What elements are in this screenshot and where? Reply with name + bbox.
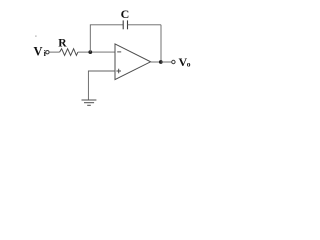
op-amp non-inverting pin label (plus) — [116, 69, 121, 74]
node A (junction dot) — [88, 50, 92, 54]
terminal Vi — [46, 51, 49, 54]
wire feedback left vertical — [90, 25, 123, 52]
ground — [82, 100, 97, 105]
wire feedback right vertical down to node B — [160, 25, 162, 62]
label Vi — [34, 44, 47, 58]
svg-text:C: C — [121, 7, 130, 21]
wire feedback right horizontal — [128, 24, 162, 26]
resistor R — [60, 49, 78, 56]
svg-text:R: R — [58, 38, 67, 50]
wire resistor to node A — [78, 51, 90, 53]
wire Vi to resistor — [49, 51, 59, 53]
wire op-amp output to node B — [151, 61, 161, 63]
svg-text:o: o — [187, 60, 191, 69]
wire node B to output terminal — [161, 61, 172, 63]
node B (junction dot) — [159, 60, 163, 64]
svg-text:V: V — [34, 44, 43, 58]
terminal Vo — [172, 60, 175, 63]
op-amp inverting pin label (minus) — [117, 51, 121, 53]
op-amp U1 — [115, 44, 151, 80]
wire op-amp non-inverting input to ground — [88, 71, 115, 100]
capacitor C — [123, 20, 127, 29]
speck (scan artifact) — [35, 36, 36, 37]
label Vo — [179, 55, 191, 69]
wire node A to op-amp inverting input — [90, 51, 115, 53]
